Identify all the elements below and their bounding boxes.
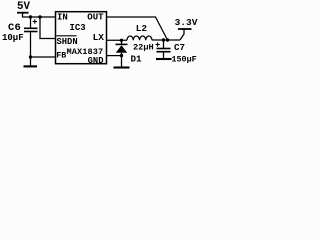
node OUT diagonal junction xyxy=(166,38,169,41)
node GND/D1 junction xyxy=(120,54,123,57)
node FB junction xyxy=(29,55,32,58)
capacitor C7 xyxy=(155,40,170,59)
svg-text:3.3V: 3.3V xyxy=(175,17,198,28)
3.3V output terminal xyxy=(178,28,192,30)
svg-text:OUT: OUT xyxy=(87,13,104,23)
node C7 junction xyxy=(162,38,165,41)
wire FB to ground node xyxy=(31,56,56,58)
svg-text:10µF: 10µF xyxy=(2,33,24,43)
ground (C7) xyxy=(156,58,172,60)
svg-text:FB: FB xyxy=(56,52,66,61)
svg-text:5V: 5V xyxy=(17,1,30,13)
svg-text:LX: LX xyxy=(93,32,105,43)
IC IC3 MAX1837 regulator box xyxy=(56,12,107,64)
svg-text:150µF: 150µF xyxy=(172,54,197,64)
capacitor C6 xyxy=(24,17,38,57)
wire output rail xyxy=(152,39,180,41)
wire to 3.3V terminal xyxy=(180,29,184,40)
svg-text:D1: D1 xyxy=(131,54,143,65)
svg-text:22µH: 22µH xyxy=(133,43,154,53)
node C6 top junction xyxy=(29,15,32,18)
svg-text:SHDN: SHDN xyxy=(57,37,78,47)
node D1 top junction xyxy=(120,39,123,42)
wire OUT to output node xyxy=(107,17,168,40)
diode D1 xyxy=(116,40,128,55)
background xyxy=(0,0,199,75)
svg-text:IC3: IC3 xyxy=(70,23,86,33)
ground (D1/GND) xyxy=(114,56,130,68)
svg-text:IN: IN xyxy=(57,13,68,23)
wire SHDN tie to 5V rail xyxy=(40,17,56,39)
ground (C6) xyxy=(24,57,38,66)
wire LX to inductor xyxy=(107,39,128,41)
5V supply terminal xyxy=(17,13,29,18)
svg-text:GND: GND xyxy=(88,56,104,66)
svg-text:L2: L2 xyxy=(136,23,148,34)
wire 5V rail to IN xyxy=(23,16,56,18)
inductor L2 xyxy=(127,36,152,40)
node SHDN branch junction xyxy=(38,15,41,18)
svg-text:C6: C6 xyxy=(8,22,21,34)
svg-text:C7: C7 xyxy=(174,42,185,53)
wire GND pin to ground xyxy=(107,55,122,57)
